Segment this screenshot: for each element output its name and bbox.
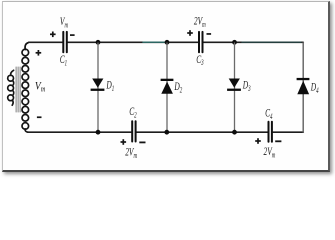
svg-text:Vm: Vm [60, 16, 68, 30]
secondary - polarity [37, 116, 42, 118]
diode D3 [227, 79, 241, 91]
label D3 [242, 79, 251, 93]
- sign C3 [207, 33, 212, 35]
scan border frame [2, 1, 330, 172]
svg-text:D1: D1 [106, 79, 115, 93]
wire top rail [29, 41, 304, 43]
- sign C4 [275, 140, 281, 142]
label 2Vm below C2 [125, 146, 137, 160]
transformer T primary coil [8, 70, 14, 105]
+ sign C3 [187, 30, 193, 36]
+ sign C4 [255, 138, 261, 144]
node dot bottom of D3 [232, 130, 237, 135]
label Vm (secondary) [35, 79, 45, 94]
+ sign C1 [50, 32, 56, 38]
label C4 [265, 107, 273, 121]
transformer core [16, 67, 20, 112]
node dot top of D3 [232, 40, 237, 45]
svg-text:D3: D3 [242, 79, 251, 93]
diode D2 [161, 79, 174, 94]
svg-text:Vm: Vm [35, 79, 45, 94]
svg-text:D4: D4 [310, 81, 319, 95]
label 2Vm below C4 [264, 146, 276, 160]
- sign C1 [70, 34, 75, 36]
node dot top of D1 [96, 40, 101, 45]
node dot bottom of D2 [164, 130, 169, 135]
svg-text:2Vm: 2Vm [125, 146, 137, 160]
label D1 [106, 79, 115, 93]
svg-text:2Vm: 2Vm [194, 15, 206, 29]
label D4 [310, 81, 319, 95]
label C1 [60, 54, 67, 68]
wire D1 vertical [97, 43, 99, 132]
node dot bottom of D1 [96, 130, 101, 135]
svg-text:D2: D2 [174, 81, 183, 95]
- sign C2 [139, 142, 145, 144]
wire D3 vertical [234, 43, 236, 132]
capacitor C3 [199, 32, 203, 52]
svg-text:C4: C4 [265, 107, 273, 121]
label C2 [129, 105, 137, 119]
capacitor C4 [269, 122, 272, 142]
svg-text:2Vm: 2Vm [264, 146, 276, 160]
diode D1 [91, 79, 105, 91]
secondary + polarity [36, 50, 42, 56]
label C3 [196, 53, 204, 67]
label Vm above C1 [60, 16, 68, 30]
node dot top of D2 [165, 40, 170, 45]
wire D2 vertical [166, 43, 168, 132]
svg-text:C1: C1 [60, 54, 67, 68]
wire tint artifact on top rail [143, 41, 301, 43]
capacitor C2 [132, 121, 135, 141]
label D2 [174, 81, 183, 95]
svg-text:C3: C3 [196, 53, 204, 67]
+ sign C2 [121, 139, 127, 145]
capacitor C1 [63, 32, 67, 52]
svg-text:C2: C2 [129, 105, 137, 119]
wire right vertical (top rail corner to bottom rail) [302, 42, 304, 132]
diode D4 [297, 78, 310, 94]
label 2Vm above C3 [194, 15, 206, 29]
transformer secondary coil [22, 43, 29, 133]
wire bottom rail [28, 131, 304, 133]
